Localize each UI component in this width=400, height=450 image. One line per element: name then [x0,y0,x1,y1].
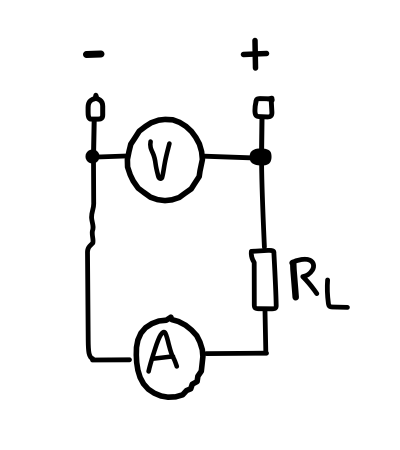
ammeter U2 circle [136,317,203,397]
voltmeter U1 circle [127,119,202,200]
node A (left junction dot) [86,150,100,164]
V label [150,142,169,179]
wire: voltmeter to node B [204,156,250,158]
R label [292,259,316,297]
A label [149,332,177,371]
wire: left terminal to node A [91,121,97,152]
wire: node B down to resistor RL [262,164,265,247]
wire: resistor RL to bottom corner [263,311,269,352]
wire: bottom-left horizontal to ammeter [93,357,130,362]
L subscript label [327,280,347,307]
minus label [87,51,102,59]
terminal right [255,98,272,117]
wire: left vertical (node A to bottom corner) [88,160,94,359]
wire: right terminal to node B [259,118,264,151]
wire: node A to voltmeter [98,156,127,157]
resistor RL body [251,250,276,308]
node B (right junction blob) [251,150,270,165]
plus label [244,41,267,69]
wire: bottom-right horizontal to ammeter [207,351,267,356]
terminal left [88,95,103,119]
